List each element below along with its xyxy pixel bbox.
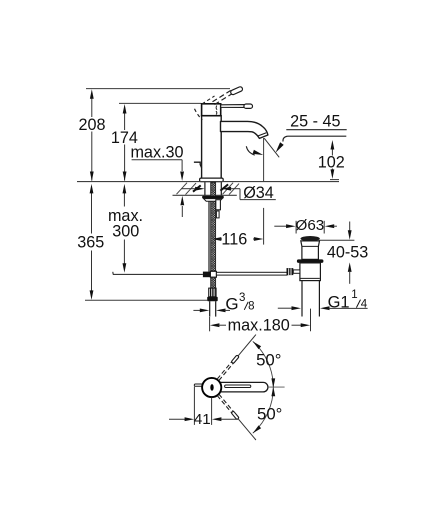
svg-text:50°: 50°	[257, 405, 282, 424]
counter hatching	[177, 183, 188, 195]
hose fitting block	[216, 200, 221, 210]
svg-text:41: 41	[194, 411, 211, 428]
svg-text:40-53: 40-53	[327, 243, 368, 261]
svg-text:365: 365	[77, 233, 104, 251]
dashed lever upper 50deg	[217, 361, 232, 379]
stream curved arrow left	[246, 146, 255, 155]
lower 50deg arc	[253, 387, 273, 433]
svg-text:G: G	[225, 294, 238, 313]
waste upper body	[301, 241, 320, 260]
waste plug	[301, 236, 320, 241]
stream angle line	[264, 138, 279, 157]
svg-text:25 - 45: 25 - 45	[290, 113, 340, 131]
svg-text:max.180: max.180	[228, 317, 290, 335]
waste body	[300, 263, 321, 281]
lever handle (horizontal)	[221, 105, 245, 108]
lever swing arc (dashed)	[195, 109, 203, 120]
mounting nut	[202, 196, 224, 199]
base flange	[200, 178, 224, 182]
dimension max.180	[209, 317, 211, 331]
upper 50deg arc	[253, 341, 273, 387]
top view lever	[219, 382, 268, 392]
svg-text:Ø63: Ø63	[296, 217, 325, 234]
dimension 174	[124, 112, 126, 130]
pull rod extended (left)	[113, 273, 203, 275]
cartridge / handle base	[202, 104, 221, 116]
label G3/8 with arrows	[193, 309, 201, 311]
cartridge interior marks	[216, 106, 217, 115]
top view pull rod knob	[194, 384, 203, 386]
svg-text:1: 1	[351, 289, 357, 301]
svg-text:300: 300	[112, 222, 139, 240]
top view lever slot	[225, 385, 251, 388]
svg-text:50°: 50°	[256, 351, 281, 370]
dimension 208	[91, 98, 93, 117]
cone washer	[204, 199, 223, 202]
lever raised position (dashed)	[213, 90, 233, 102]
pull rod below deck	[208, 201, 210, 272]
spout	[221, 121, 268, 138]
svg-text:102: 102	[318, 154, 345, 172]
pull rod knob (side view)	[194, 162, 202, 168]
G3/8 connection nut	[207, 297, 218, 301]
pop-up rod coupling	[203, 272, 211, 278]
svg-text:max.30: max.30	[130, 144, 183, 162]
svg-text:3: 3	[239, 292, 245, 304]
waste tailpipe	[301, 281, 303, 317]
dimension max.300 (pull rod length)	[123, 192, 125, 207]
svg-text:208: 208	[78, 116, 105, 134]
top view faucet body circle	[202, 378, 221, 397]
hose-end reference line (365 bottom)	[85, 299, 207, 301]
dimension 41	[193, 387, 195, 425]
braided hose lower	[211, 277, 216, 288]
mounting shank edges (through hole)	[204, 182, 206, 195]
braided hose (crosshatched) upper	[211, 182, 216, 271]
cartridge raised outline (dashed)	[202, 96, 215, 104]
water stream line	[263, 138, 265, 181]
connection nipple tube	[209, 301, 211, 316]
hose fitting stub	[216, 211, 219, 218]
svg-text:4: 4	[361, 299, 368, 311]
svg-text:116: 116	[221, 230, 247, 248]
dimension Ø63	[295, 221, 297, 234]
dimension Ø34 callout	[181, 188, 196, 190]
counter bottom line	[173, 194, 237, 196]
leader hook from 25-45	[283, 136, 288, 141]
dimension 116	[212, 237, 222, 241]
extension line top of body (174 ref)	[119, 102, 201, 104]
centerline right	[268, 386, 285, 388]
svg-text:8: 8	[248, 300, 254, 312]
horizontal pop-up rod	[216, 272, 287, 275]
bold hatch strokes at shank	[193, 185, 201, 191]
label G1 1/4 with arrows	[278, 307, 293, 309]
svg-text:Ø34: Ø34	[243, 184, 274, 202]
rod knob at waste	[287, 268, 294, 275]
hose crimp end	[209, 288, 216, 297]
dimension 102	[331, 148, 333, 156]
aerator ring line	[258, 133, 266, 136]
counter top line	[77, 181, 339, 183]
dimension 40-53	[319, 239, 355, 241]
faucet body	[202, 116, 222, 179]
extension line top of lever (208 ref)	[86, 88, 230, 90]
dimension 365	[91, 192, 93, 234]
svg-text:G1: G1	[328, 294, 350, 312]
top view cartridge stem	[210, 384, 213, 391]
dashed lever lower 50deg	[219, 394, 234, 412]
waste flange ring	[297, 259, 324, 263]
